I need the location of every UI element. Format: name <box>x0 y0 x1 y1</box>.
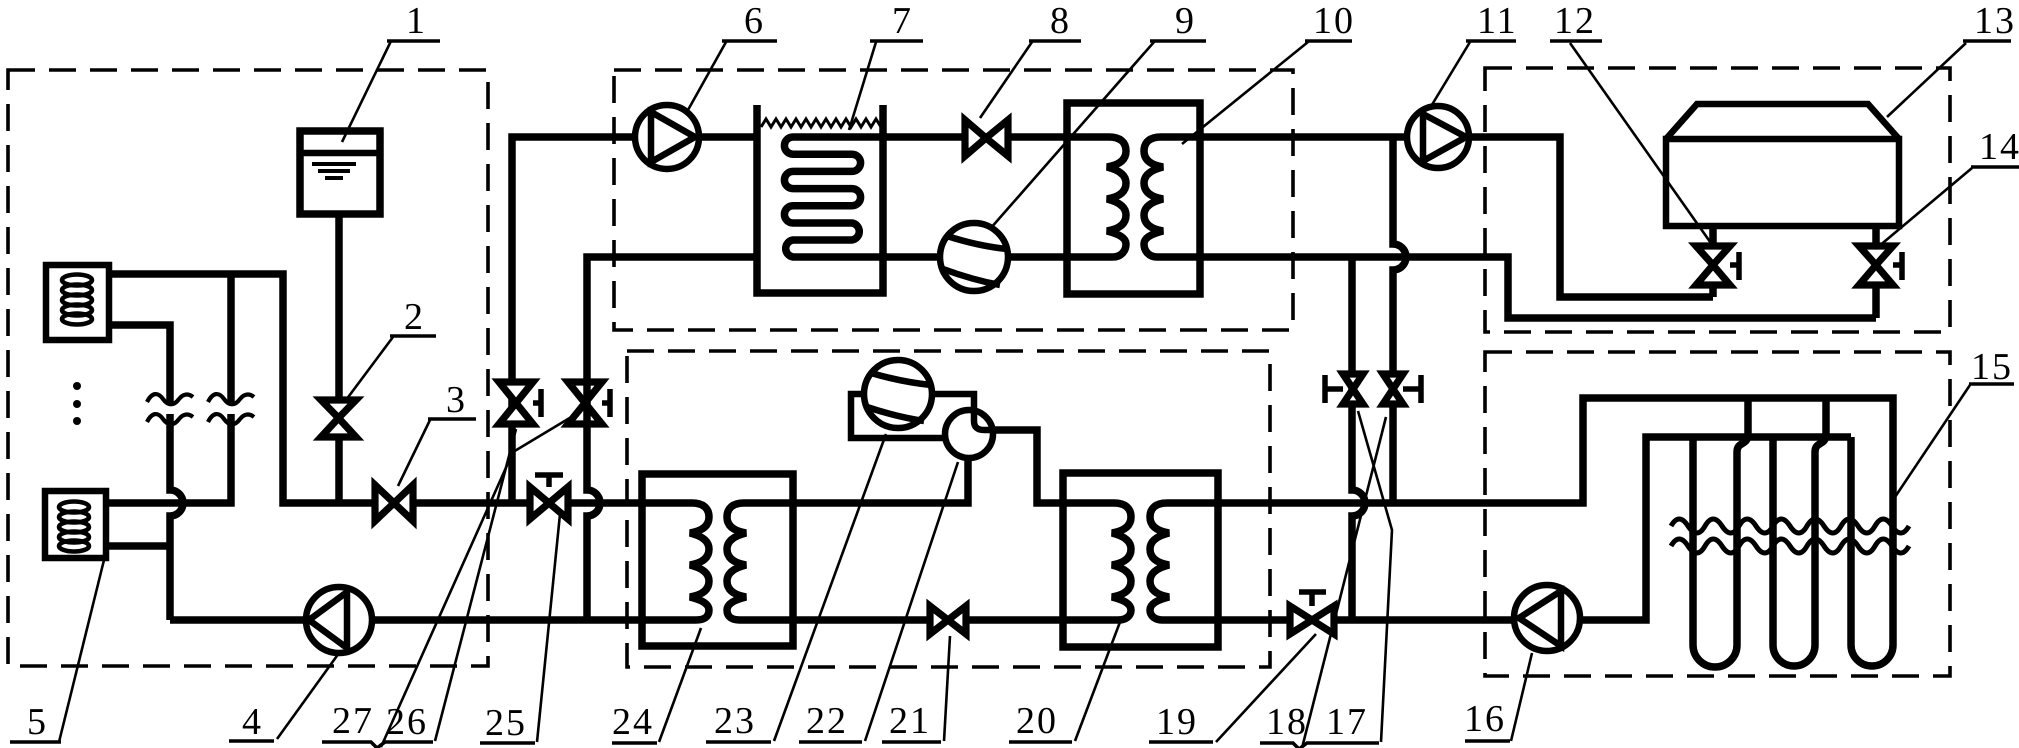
svg-text:2: 2 <box>404 296 425 338</box>
svg-text:23: 23 <box>714 700 756 742</box>
HX24 left coil <box>642 503 709 620</box>
wire: building stub through valve 14 <box>1872 226 1880 318</box>
svg-text:7: 7 <box>892 0 913 42</box>
heat-pump unit box (middle) <box>627 351 1270 667</box>
HX10 left coil <box>1067 137 1126 257</box>
leader to valve 26 <box>381 416 573 747</box>
water table wavy line lower <box>1671 539 1909 553</box>
U-tube 1 <box>1693 398 1748 667</box>
svg-text:1: 1 <box>406 0 427 42</box>
svg-text:21: 21 <box>889 700 931 742</box>
svg-text:16: 16 <box>1464 698 1506 740</box>
wire: return line pump 4 to HX24 (T at x587) <box>372 616 646 624</box>
compressor 23 <box>864 360 932 428</box>
wire: HX10 lower right return line to valve 14 riser (T at x1352, hop of x1387) <box>1200 257 1876 318</box>
valve 27 <box>499 382 533 424</box>
valve 12 handle <box>1730 252 1739 280</box>
wire: HX20 right bottom through valve 19 to pump 16 <box>1218 616 1514 624</box>
svg-text:22: 22 <box>806 700 848 742</box>
wire: HX24 right bottom through valve 21 to HX20 left bottom <box>793 616 1063 624</box>
valve 17 <box>1343 374 1363 404</box>
HX24 right coil <box>727 503 793 620</box>
svg-text:13: 13 <box>1974 0 2016 42</box>
user-side box (left) <box>8 70 488 666</box>
pump 11 <box>1407 106 1469 168</box>
valve 3 <box>375 485 413 521</box>
wire: vertical from top line through valve 18 (hop over return) to lower supply <box>1393 137 1406 503</box>
valve 12 <box>1696 246 1730 285</box>
svg-text:24: 24 <box>612 701 654 743</box>
wire: riser x170 lower part with hop over supply line down to return line <box>170 414 183 620</box>
wire: unit B top port to elbow up riser x231 <box>106 414 231 503</box>
valve 18 <box>1383 374 1403 404</box>
wire: return line from riser x170 to pump 4 <box>170 616 306 624</box>
valve 22 internal bend <box>974 411 991 430</box>
tank 7 shell <box>757 105 883 293</box>
compressor enclosure piping <box>851 394 974 438</box>
fan-coil unit B (bottom) <box>45 491 106 558</box>
valve 27 handle <box>533 389 541 417</box>
valve 14 <box>1859 246 1893 285</box>
shared underline 18/17 <box>1260 743 1379 748</box>
svg-text:20: 20 <box>1016 700 1058 742</box>
wire: compressor 9 to HX10 lower left <box>1008 253 1067 261</box>
wire: pump 6 to tank 7 left wall <box>699 133 757 141</box>
valve 19 <box>1290 606 1334 634</box>
svg-text:17: 17 <box>1326 701 1368 743</box>
wire: unit A top port to corner and down to supply line, over to HX24 <box>109 274 642 503</box>
leader to valve 17 <box>1358 411 1392 742</box>
wire: tank 1 down to valve 2 to supply line <box>335 214 343 503</box>
tank 1 <box>300 131 380 214</box>
HX10 right coil <box>1144 137 1200 257</box>
valve 17 handle <box>1325 375 1343 403</box>
pump 16 <box>1514 585 1580 651</box>
HX10 shell <box>1067 103 1200 294</box>
reversing valve 22 <box>945 410 993 458</box>
water table wavy line upper <box>1671 519 1909 533</box>
valve 25 <box>530 487 568 519</box>
svg-text:10: 10 <box>1313 0 1355 42</box>
coil of unit B <box>59 502 89 552</box>
svg-text:18: 18 <box>1266 701 1308 743</box>
wire: pump 11 to valve 12 riser under building <box>1469 137 1713 297</box>
svg-text:5: 5 <box>27 701 48 743</box>
compressor 9 <box>940 223 1008 291</box>
valve 8 <box>965 120 1008 156</box>
svg-text:25: 25 <box>485 702 527 744</box>
svg-text:3: 3 <box>446 379 467 421</box>
svg-text:11: 11 <box>1477 0 1518 42</box>
tank 1 lid line <box>300 150 380 157</box>
wire: valve 22 right port over and down to HX20 left top <box>991 430 1063 503</box>
leader to valve 27 <box>435 429 516 741</box>
valve 14 handle <box>1893 252 1902 280</box>
ground-loop box (bottom right) <box>1485 352 1950 676</box>
HX20 left coil <box>1063 503 1131 620</box>
HX24 shell <box>642 474 793 646</box>
heat-storage unit box (top middle) <box>614 70 1293 330</box>
wire: building stub through valve 12 <box>1709 226 1717 297</box>
valve 19 handle <box>1299 592 1326 606</box>
wire: supply line to upper header and down rightmost leg of U-tube 3 <box>1218 398 1893 666</box>
wire: HX24 right top up to reversing valve 22 bottom <box>793 458 968 503</box>
valve 2 <box>321 400 356 437</box>
HX20 right coil <box>1150 503 1218 620</box>
valve 25 handle <box>535 475 563 487</box>
svg-text:19: 19 <box>1156 701 1198 743</box>
tank 7 water surface <box>761 119 881 127</box>
wire: HX10 upper right to pump 11 (T at x1387) <box>1200 133 1407 141</box>
wire: unit B bottom port to riser x170 <box>106 542 170 550</box>
wire: lower header from U-tube 3 left leg to riser and to pump 16 <box>1580 437 1851 620</box>
pump 6 <box>635 105 699 169</box>
tank 1 water level marks <box>312 164 356 178</box>
U-tube 2 <box>1773 398 1826 666</box>
valve 18 handle <box>1403 375 1421 403</box>
leader to valve 18 <box>1302 417 1386 748</box>
wire: vertical from return line through valve 17 (hop over supply) to ground return <box>1352 257 1365 620</box>
valve 21 <box>930 606 966 634</box>
svg-text:27: 27 <box>332 700 374 742</box>
shared underline 27/26 <box>322 742 433 748</box>
fan-coil unit A (top) <box>46 265 109 340</box>
pipe break squiggle on riser x231 <box>208 394 254 424</box>
wire: unit A bottom port to riser x170 <box>109 325 170 404</box>
building 13 front face <box>1666 139 1899 226</box>
valve 26 <box>568 382 602 424</box>
building 13 roof <box>1666 104 1899 139</box>
svg-text:6: 6 <box>744 0 765 42</box>
wire: riser at x231 upper part (T on unit A top pipe) <box>227 274 235 404</box>
wire: riser x587 from tank7 bottom outlet down (hop over supply) to return line <box>587 257 757 620</box>
pipe break squiggle on riser x170 <box>147 394 193 424</box>
wire: riser x512 from supply line up and over to pump 6 <box>512 137 635 503</box>
svg-text:15: 15 <box>1971 346 2013 388</box>
cooling-tower/building box (top right) <box>1485 68 1950 332</box>
HX20 shell <box>1063 473 1218 647</box>
serpentine coil 7 through tank, out to valve 8 and HX10 <box>784 137 1067 257</box>
svg-text:14: 14 <box>1979 126 2019 168</box>
coil of unit A <box>62 275 92 325</box>
valve 26 handle <box>602 389 610 417</box>
ellipsis dots between units <box>73 382 81 390</box>
svg-text:4: 4 <box>242 701 263 743</box>
svg-text:8: 8 <box>1050 0 1071 42</box>
svg-text:9: 9 <box>1175 0 1196 42</box>
svg-text:12: 12 <box>1554 0 1596 42</box>
pump 4 <box>306 587 372 653</box>
